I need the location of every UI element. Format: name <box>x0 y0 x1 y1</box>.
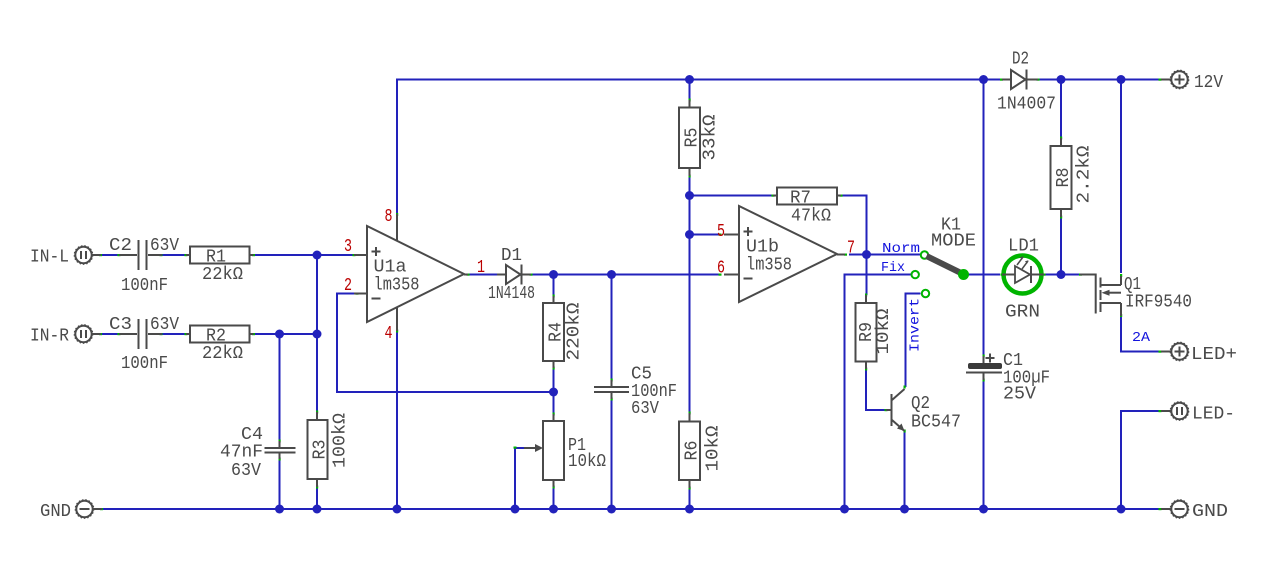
wire LED- to ground rail <box>1121 411 1160 509</box>
svg-text:63V: 63V <box>631 399 659 419</box>
junction node gnd P1 <box>549 505 558 514</box>
diode D1 <box>488 246 535 304</box>
wire 12V branch down to Q1 source <box>1120 80 1122 274</box>
svg-text:R6: R6 <box>683 441 703 461</box>
terminal IN-L <box>30 246 101 268</box>
junction node gnd Q2 <box>900 505 909 514</box>
svg-text:1: 1 <box>477 258 485 278</box>
wire U1a pin2 feedback <box>337 294 554 393</box>
svg-text:2.2kΩ: 2.2kΩ <box>1075 145 1095 203</box>
svg-text:22kΩ: 22kΩ <box>202 265 243 285</box>
svg-text:6: 6 <box>717 259 725 279</box>
capacitor C2 <box>109 236 179 296</box>
svg-text:63V: 63V <box>231 461 261 481</box>
junction node feedback R4-P1 <box>549 388 558 397</box>
svg-text:47kΩ: 47kΩ <box>791 207 831 227</box>
resistor R7 <box>773 188 841 227</box>
svg-text:LED-: LED- <box>1192 405 1235 425</box>
terminal LED+ <box>1161 343 1237 366</box>
wire U1a pin4 to ground <box>396 331 398 509</box>
wire IN-L to C2 <box>100 254 119 256</box>
svg-text:12V: 12V <box>1194 73 1223 93</box>
wire switch common to LED anode <box>964 274 1001 276</box>
resistor R1 <box>186 247 254 286</box>
junction node IN-R C4 <box>275 330 284 339</box>
junction node R8 top <box>1057 75 1066 84</box>
wire U1b output to Norm contact <box>849 254 921 256</box>
svg-text:GND: GND <box>40 502 71 522</box>
resistor R4 <box>543 296 585 368</box>
svg-text:Invert: Invert <box>908 298 924 352</box>
svg-text:lm358: lm358 <box>374 276 420 296</box>
wire C5 bottom to ground <box>611 399 613 509</box>
svg-text:8: 8 <box>385 207 393 227</box>
op-amp U1b <box>724 206 845 302</box>
wire output node down to R9 <box>866 255 868 296</box>
resistor R2 <box>186 326 254 365</box>
svg-text:D2: D2 <box>1012 50 1029 70</box>
svg-text:100nF: 100nF <box>121 354 168 374</box>
junction node C5 top <box>607 270 616 279</box>
junction node IN-R R3 <box>313 330 322 339</box>
wire R4 top stub <box>553 275 555 297</box>
junction node R1-pin3 <box>313 251 322 260</box>
svg-text:IN-L: IN-L <box>30 248 69 268</box>
wire divider to U1b pin5 <box>690 234 721 236</box>
LED LD1 <box>1002 237 1044 323</box>
svg-text:C3: C3 <box>109 315 132 335</box>
capacitor C3 <box>109 315 179 374</box>
wire P1 wiper to ground <box>515 448 524 509</box>
junction node D1-R4 <box>549 270 558 279</box>
wire ground rail <box>101 508 1160 510</box>
junction node top rail R5 <box>685 75 694 84</box>
svg-text:100nF: 100nF <box>121 276 168 296</box>
svg-text:R3: R3 <box>311 440 331 460</box>
wire R6 bottom to ground <box>689 488 691 509</box>
wire R7 right to output node <box>841 196 867 255</box>
junction node gnd R3 <box>313 505 322 514</box>
svg-text:47nF: 47nF <box>220 443 263 463</box>
svg-text:25V: 25V <box>1003 385 1036 405</box>
junction node D2 anode <box>979 75 988 84</box>
svg-text:22kΩ: 22kΩ <box>202 344 243 364</box>
wire C3 to R2 <box>161 333 186 335</box>
resistor R5 <box>679 100 721 176</box>
svg-text:R5: R5 <box>683 128 703 148</box>
diode D2 <box>997 50 1056 115</box>
svg-text:220kΩ: 220kΩ <box>565 302 585 360</box>
wire R9 bottom to Q2 base <box>866 369 886 410</box>
transistor Q1 MOSFET <box>1080 274 1192 317</box>
svg-text:R7: R7 <box>790 189 811 209</box>
svg-text:U1b: U1b <box>746 238 779 258</box>
svg-text:GRN: GRN <box>1005 303 1040 323</box>
svg-text:BC547: BC547 <box>911 413 961 433</box>
wire mix node vertical <box>316 255 318 412</box>
capacitor C1 polarized <box>966 351 1050 405</box>
wire C4 branch <box>279 334 281 441</box>
wire Q1 drain to LED+ <box>1121 316 1160 352</box>
wire R2 to node <box>254 333 318 335</box>
svg-text:D1: D1 <box>501 246 522 266</box>
resistor R8 <box>1051 138 1095 217</box>
svg-text:MODE: MODE <box>931 232 976 252</box>
wire R5 top stub <box>689 80 691 101</box>
switch K1 <box>912 216 977 298</box>
svg-text:R4: R4 <box>547 322 567 342</box>
wire R1 to U1a pin3 <box>254 254 355 256</box>
wire C4 bottom to ground <box>279 459 281 509</box>
wire top rail right of D2 <box>1038 79 1160 81</box>
wire P1 bottom to ground <box>553 487 555 509</box>
resistor R9 <box>856 295 895 369</box>
svg-text:1N4007: 1N4007 <box>997 95 1056 115</box>
wire IN-R to C3 <box>100 333 119 335</box>
svg-text:4: 4 <box>385 324 393 344</box>
wire R4 bottom to feedback node <box>553 368 555 414</box>
wire R8 top <box>1060 80 1062 139</box>
transistor Q2 <box>886 389 961 433</box>
junction node gnd P1 wiper <box>511 505 520 514</box>
terminal IN-R <box>30 325 101 347</box>
terminal GND right <box>1161 500 1228 522</box>
svg-text:Fix: Fix <box>881 260 905 276</box>
terminal LED- <box>1161 402 1235 425</box>
op-amp U1a <box>354 214 468 331</box>
junction node gnd Fix <box>840 505 849 514</box>
wire Invert contact to Q2 collector <box>906 294 921 388</box>
svg-text:3: 3 <box>344 237 352 257</box>
junction node gnd LED- <box>1117 505 1126 514</box>
junction node Q1 source rail <box>1117 75 1126 84</box>
svg-text:LD1: LD1 <box>1008 237 1039 257</box>
svg-text:5: 5 <box>717 222 725 242</box>
svg-text:10kΩ: 10kΩ <box>568 452 606 472</box>
pin connection ticks <box>99 79 1162 511</box>
wire Fix contact to ground <box>845 275 912 510</box>
junction node gnd C5 <box>607 505 616 514</box>
resistor R3 <box>308 412 351 487</box>
wire D1 cathode to U1b pin6 <box>531 274 720 276</box>
svg-text:lm358: lm358 <box>746 256 792 276</box>
junction node R5-R7 <box>685 191 694 200</box>
junction node gnd pin4 <box>393 505 402 514</box>
terminal GND left <box>40 500 102 522</box>
svg-text:Q2: Q2 <box>911 394 930 414</box>
terminal 12V <box>1161 71 1223 94</box>
wire R5 bottom / divider column <box>689 176 691 413</box>
resistor R6 <box>679 413 724 488</box>
potentiometer P1 <box>524 414 606 487</box>
svg-text:63V: 63V <box>150 315 179 335</box>
svg-text:63V: 63V <box>150 236 179 256</box>
junction node pin5 <box>685 230 694 239</box>
capacitor C4 <box>220 425 296 481</box>
junction node pin7-R9 <box>862 250 871 259</box>
svg-text:IN-R: IN-R <box>30 327 69 347</box>
svg-text:U1a: U1a <box>374 258 407 278</box>
capacitor C5 <box>594 365 677 420</box>
svg-text:33kΩ: 33kΩ <box>701 114 721 160</box>
junction node gnd R6 <box>685 505 694 514</box>
wire C1 bottom to ground rail <box>983 380 985 509</box>
wire U1a output to D1 <box>468 274 497 276</box>
wire top rail from U1a pin8 to 12V <box>397 80 1002 215</box>
svg-text:10kΩ: 10kΩ <box>704 425 724 471</box>
svg-text:R8: R8 <box>1054 168 1074 188</box>
wire C5 top <box>611 275 613 381</box>
wire R3 bottom to ground <box>316 487 318 509</box>
svg-text:LED+: LED+ <box>1191 345 1237 365</box>
svg-text:7: 7 <box>847 239 855 259</box>
svg-text:IRF9540: IRF9540 <box>1125 293 1192 313</box>
svg-text:2A: 2A <box>1132 330 1151 346</box>
svg-text:1N4148: 1N4148 <box>488 284 535 304</box>
junction node LED cathode gate <box>1057 270 1066 279</box>
svg-text:2: 2 <box>344 276 352 296</box>
wire LED cathode to Q1 gate <box>1044 274 1080 276</box>
junction node gnd C1 <box>979 505 988 514</box>
svg-text:GND: GND <box>1192 502 1228 522</box>
wire C2 to R1 <box>161 254 186 256</box>
wire divider to R7 <box>690 195 774 197</box>
svg-text:Norm: Norm <box>882 241 920 257</box>
svg-text:100kΩ: 100kΩ <box>331 413 351 468</box>
wire vertical supply to C1 <box>983 80 985 357</box>
svg-text:C2: C2 <box>109 236 132 256</box>
svg-text:10kΩ: 10kΩ <box>874 308 894 354</box>
wire R8 bottom to LED node <box>1060 217 1062 275</box>
wire Q2 emitter to ground <box>904 431 906 509</box>
junction node gnd C4 <box>275 505 284 514</box>
